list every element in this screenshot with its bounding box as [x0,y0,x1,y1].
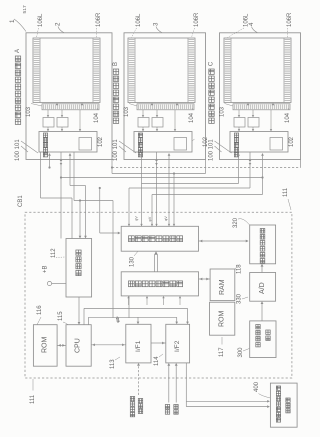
svg-text:3: 3 [153,22,160,26]
svg-text:B: B [113,62,119,66]
svg-text:φV: φV [164,216,168,221]
sensor B drive wire x=141.5 with up arrow [141,155,143,226]
sensor A signal box inner square [79,138,92,151]
svg-text:ROM: ROM [219,311,226,328]
bus b5 y=188 [129,187,250,189]
sensor A CDS box 2 [57,118,68,128]
RAM box 118 [210,269,235,301]
sensor A arrows array to comb [56,103,59,106]
sensor C drive wire x=250 with diamond arrows [249,152,251,188]
interface box I/F 114 [166,324,190,363]
sensor C drive wire x=238.5 with up arrow [238,155,240,184]
sensor C arrows CDS to signal box [238,127,240,130]
sensor C horizontal scan comb 103 [233,104,290,110]
IF1 to IF2 arrow [151,342,166,344]
svg-text:I/F1: I/F1 [135,340,142,352]
svg-text:118: 118 [237,264,243,274]
riser x=152 into control box [151,195,153,227]
bus b4 y=183.5 [142,183,239,185]
corner wire from sensor A bottom-right [111,160,113,174]
svg-text:103: 103 [26,106,32,117]
svg-text:102: 102 [289,136,295,147]
CPU-IF1 double arrow [91,344,126,346]
power supply output wire to CPU [78,297,80,323]
bus b3 y=177.5 [61,177,263,179]
sensor A vertical scan ladder 106R [92,38,94,103]
sensor B arrows comb to CDS boxes [142,110,144,116]
sensor B pixel array 101 [128,38,195,103]
svg-text:106R: 106R [194,12,200,27]
sensor B signal box inner square [174,138,187,151]
sensor A signal processing box 102 [39,132,97,153]
svg-text:103: 103 [220,106,226,117]
sensor C CDS box 2 [248,118,259,128]
sensor B wire comb to signal box [174,110,176,130]
sensor A pixel array 101 [33,38,100,103]
sensor A horizontal scan comb 103 [42,104,99,110]
svg-text:115: 115 [58,311,64,321]
temperature measurement circuit box 300 [250,321,276,358]
svg-text:C: C [209,61,215,66]
drive box bottom stubs [127,296,129,298]
svg-text:I/F2: I/F2 [174,340,181,352]
b5 drop wire into control box left edge [99,188,101,233]
svg-text:517: 517 [22,5,28,13]
sensor B arrows array to comb [151,103,154,106]
sensor A arrows comb to CDS boxes [47,110,49,116]
svg-text:130: 130 [130,256,136,267]
svg-text:CPU: CPU [75,338,82,353]
sensor C vertical scan ladder 106L [230,38,232,103]
svg-text:113: 113 [110,359,116,369]
svg-text:106L: 106L [136,13,142,27]
second ROM box 117 [210,302,235,335]
sensor C pixel array 101 [224,38,291,103]
sensor B vertical scan ladder 106R [187,38,189,103]
svg-text:117: 117 [219,347,225,357]
sensor A stub x=40.5 [40,152,42,198]
sensor C drive wire x=262.5 with up arrow [262,155,264,195]
ROM box 116 [33,325,57,367]
svg-text:114: 114 [154,356,160,366]
sensor A stub x=70 with up arrow to power supply [69,155,71,186]
drive signal generation circuit box [121,272,198,296]
bus b7a y=198 to power supply [41,197,73,199]
svg-text:100 101: 100 101 [209,139,215,161]
sensor C wire comb to signal box [270,110,272,130]
power supply circuit box 112 [66,239,92,298]
A/D converter box 330 [250,273,276,302]
sensor B CDS box 1 [138,118,149,128]
corner wire from sensor B bottom-right [205,160,207,174]
wire temperature box to A/D with arrow [261,303,263,321]
control input wires into IF2 [168,365,170,403]
svg-text:A: A [15,49,21,53]
svg-text:104: 104 [189,112,195,123]
sensor C signal processing box 102 [230,132,288,153]
riser x=174 into control box [173,174,175,227]
svg-text:330: 330 [237,293,243,304]
corner wire from sensor C bottom-right [300,160,302,168]
wire control box to controller [199,240,249,242]
svg-text:100 101: 100 101 [15,139,21,161]
sensor A CDS box 1 [43,118,54,128]
svg-text:106R: 106R [96,12,102,27]
wire drop into IF1 top [137,317,139,322]
IF2 output wire to external box [185,363,187,407]
sensor C arrows comb to CDS boxes [238,110,240,116]
power supply feed x=72 [71,198,73,239]
svg-text:ROM: ROM [42,337,49,354]
bus b1 dashed y=167.5 [112,167,301,169]
sensor B drive wire x=169 with up arrow [168,155,170,226]
bus b2 y=173.5 [112,173,206,175]
drive box bottom stub with label [128,296,130,318]
svg-text:A/D: A/D [259,282,266,294]
control signal input text [165,405,169,409]
svg-text:102: 102 [98,136,104,147]
svg-text:106L: 106L [38,13,44,27]
svg-text:111: 111 [30,394,36,404]
pulse beat data wire into IF1 [138,365,140,395]
sensor B horizontal scan comb 103 [137,104,194,110]
sensor A stub x=61 with diamond arrows [60,152,62,239]
svg-text:+B: +B [43,265,49,273]
svg-text:CB1: CB1 [18,195,24,207]
svg-text:φV: φV [135,216,139,221]
CPU top riser wire to IF2 lower [88,317,90,324]
CPU top riser wire to IF2 upper [83,308,85,324]
svg-text:300: 300 [238,347,244,358]
sensor B vertical scan ladder 106L [134,38,136,103]
long wire x=113 down with phi-D label [112,201,114,319]
svg-text:104: 104 [94,112,100,123]
sensor C arrows array to comb [247,103,250,106]
controller box 320 [250,225,276,264]
wire A/D to controller with arrow [261,266,263,273]
bus arrow drive box to control box [154,255,156,272]
svg-text:111: 111 [283,187,289,197]
junction dot at 112,167.5 [111,166,113,168]
arrowheads into control box top edge [128,224,130,226]
pulse image sensor C outer box 100 [220,33,301,160]
svg-text:106R: 106R [287,12,293,27]
sensor B label leader lines [119,146,126,152]
sensor B CDS box 2 [152,118,163,128]
svg-text:100 101: 100 101 [113,139,119,161]
sensor B drive wire x=156.5 with diamond arrows [156,152,158,226]
svg-text:104: 104 [285,112,291,123]
svg-text:400: 400 [254,381,260,392]
sensor A stub x=49.5 with up arrow [49,155,51,168]
sensor A vertical scan ladder 106L [39,38,41,103]
sensor A wire comb to signal box [79,110,81,130]
pulse image sensor B outer box 100 [124,33,206,160]
circuit board CB1 dashed outline [25,212,292,378]
power supply feed x=80 with arrow [79,201,81,238]
svg-text:φV: φV [148,216,152,221]
external device box 400 [270,383,297,427]
sensor B signal processing box 102 [134,132,192,153]
svg-text:116: 116 [37,305,43,315]
svg-text:RAM: RAM [219,279,226,295]
CPU box 115 [66,325,91,367]
svg-text:4: 4 [248,22,255,26]
sensor A arrows CDS to signal box [47,127,49,130]
sensor B arrows CDS to signal box [142,127,144,130]
pulse image sensor A outer box 100 [26,33,112,160]
interface box I/F 113 [126,324,151,363]
sensor C CDS box 1 [234,118,245,128]
svg-text:103: 103 [124,106,130,117]
sensor A label leader lines [21,146,28,152]
sensor C signal box inner square [270,138,283,151]
wire drive box to RAM double arrow [199,278,211,280]
control signal generation circuit box [121,226,198,251]
sensor C label leader lines [215,146,222,152]
sensor C vertical scan ladder 106R [283,38,285,103]
sensor A stub x=74 [73,152,75,201]
ROM-CPU double arrow [57,344,66,346]
svg-text:2: 2 [55,22,62,26]
svg-text:112: 112 [51,248,57,258]
bus b6 y=194.5 [152,194,263,196]
bus b7b y=200.5 [74,200,113,202]
pulse beat signal data input text [130,397,134,401]
riser x=129 into control box [128,188,130,226]
